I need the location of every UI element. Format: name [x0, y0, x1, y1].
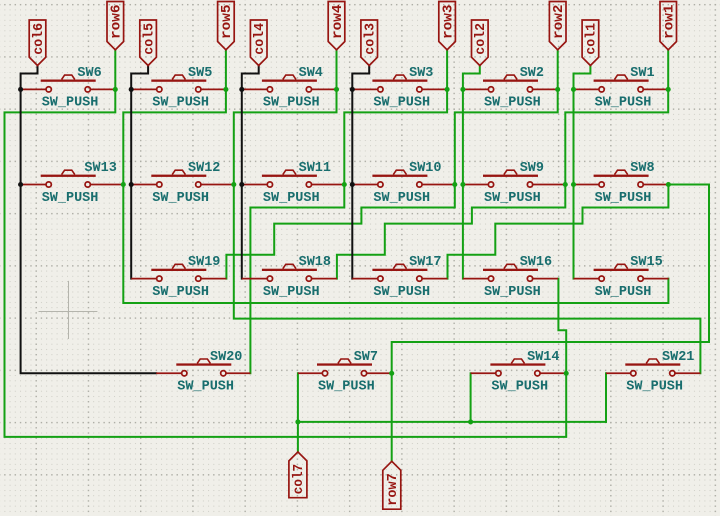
svg-text:SW_PUSH: SW_PUSH: [373, 96, 430, 111]
switch SW6: [21, 75, 116, 92]
svg-text:SW8: SW8: [630, 161, 654, 176]
wire net row1: staircase from SW9 right pin down-left to SW18 right pin: [337, 185, 565, 279]
switch SW11: [242, 170, 344, 187]
junction at SW12 right pin: [231, 182, 236, 187]
wire net row7: SW7 right pin drop to row7 flag: [391, 373, 393, 461]
junction col2 at row-2 switch left pin: [460, 182, 465, 187]
wire net row3: flag drop through SW3 right pin, jog left, down to row-2 switch: [344, 50, 447, 185]
svg-text:col4: col4: [253, 23, 268, 55]
svg-text:SW17: SW17: [409, 255, 441, 270]
net flag col2: [472, 20, 490, 66]
switch SW21: [606, 359, 700, 376]
svg-text:row4: row4: [331, 5, 346, 40]
junction row6 at SW14 right pin: [564, 371, 569, 376]
switch SW12: [131, 170, 234, 187]
wire net row5: from SW13 right pin down, long run right, up to SW15 right pin: [123, 185, 668, 304]
svg-text:row6: row6: [110, 5, 125, 40]
junction col7 at SW7 left pin drop: [295, 419, 300, 424]
switch SW13: [21, 170, 124, 187]
switch SW1: [574, 75, 669, 92]
svg-text:SW4: SW4: [299, 66, 323, 81]
switch SW19: [131, 264, 226, 281]
net flag row5: [218, 2, 236, 50]
svg-text:row2: row2: [552, 5, 567, 40]
svg-text:SW12: SW12: [188, 161, 220, 176]
junction col5 at row-2 switch left pin: [129, 182, 134, 187]
wire net col7: riser to SW14 left pin: [470, 373, 472, 422]
svg-text:SW_PUSH: SW_PUSH: [484, 96, 541, 111]
svg-text:col1: col1: [585, 23, 600, 55]
net flag row4: [328, 2, 346, 50]
wire net col7: SW7 left pin drop to col7 flag: [297, 373, 299, 452]
svg-text:col5: col5: [142, 23, 157, 55]
switch SW17: [352, 264, 447, 281]
svg-text:SW_PUSH: SW_PUSH: [491, 380, 548, 395]
net flag row2: [549, 2, 567, 50]
wire net row5: flag drop through SW5 right pin, jog left, down to row-2 switch: [123, 50, 226, 185]
switch SW20: [156, 359, 250, 376]
net flag row6: [107, 2, 125, 50]
svg-text:col3: col3: [364, 23, 379, 55]
wire net row7: SW8 right pin to right edge, down and left to SW7 right pin: [392, 185, 709, 374]
svg-text:SW_PUSH: SW_PUSH: [373, 191, 430, 206]
svg-text:SW_PUSH: SW_PUSH: [318, 380, 375, 395]
junction col4 at row-1 switch left pin: [239, 87, 244, 92]
svg-text:SW_PUSH: SW_PUSH: [484, 191, 541, 206]
svg-text:SW7: SW7: [354, 350, 378, 365]
switch SW7: [298, 359, 392, 376]
junction at SW10 right pin: [452, 182, 457, 187]
svg-text:row1: row1: [663, 5, 678, 40]
switch SW8: [574, 170, 669, 187]
wire net row4: flag drop through SW4 right pin, jog left, down to row-2 switch: [234, 50, 337, 185]
svg-text:row3: row3: [441, 5, 456, 40]
switch SW3: [352, 75, 447, 92]
svg-text:SW_PUSH: SW_PUSH: [42, 191, 99, 206]
svg-text:SW_PUSH: SW_PUSH: [152, 191, 209, 206]
net flag col7: [289, 452, 307, 498]
junction at SW13 right pin: [121, 182, 126, 187]
junction at SW9 right pin: [563, 182, 568, 187]
wire net row1: flag drop through SW1 right pin, jog left, down to row-2 switch: [565, 50, 668, 185]
junction col5 at row-1 switch left pin: [129, 87, 134, 92]
net flag row3: [439, 2, 457, 50]
net flag col1: [582, 20, 600, 66]
switch SW9: [463, 170, 565, 187]
svg-text:SW15: SW15: [630, 255, 662, 270]
svg-text:SW_PUSH: SW_PUSH: [263, 191, 320, 206]
switch SW16: [463, 264, 558, 281]
switch SW18: [242, 264, 337, 281]
wire net row2: flag drop through SW2 right pin, jog left, down to row-2 switch: [455, 50, 558, 185]
wire net col7: horizontal run: [298, 421, 606, 423]
svg-text:SW5: SW5: [188, 66, 212, 81]
junction row7 at SW7 right pin: [389, 371, 394, 376]
svg-text:col7: col7: [292, 464, 307, 494]
junction at SW11 right pin: [342, 182, 347, 187]
net flag col6: [29, 20, 47, 66]
svg-text:SW13: SW13: [84, 161, 116, 176]
svg-text:col6: col6: [32, 23, 47, 55]
svg-text:SW1: SW1: [630, 66, 654, 81]
switch SW10: [352, 170, 455, 187]
switch SW4: [242, 75, 337, 92]
svg-text:SW_PUSH: SW_PUSH: [595, 191, 652, 206]
junction col1 at row-2 switch left pin: [571, 182, 576, 187]
wire net col5: flag elbow and vertical down to row-3 switch left pin: [131, 66, 148, 279]
svg-text:SW9: SW9: [520, 161, 544, 176]
svg-text:SW_PUSH: SW_PUSH: [626, 380, 683, 395]
svg-text:SW_PUSH: SW_PUSH: [177, 380, 234, 395]
junction row7 at SW8 right pin: [666, 182, 671, 187]
svg-text:row7: row7: [386, 473, 401, 505]
svg-text:SW_PUSH: SW_PUSH: [152, 96, 209, 111]
origin cross marker: [39, 281, 98, 339]
junction row4 at SW4 right pin: [334, 87, 339, 92]
net flag col4: [250, 20, 268, 66]
svg-text:col2: col2: [474, 23, 489, 55]
svg-text:SW16: SW16: [520, 255, 552, 270]
svg-text:SW10: SW10: [409, 161, 441, 176]
wire net col6: flag elbow, vertical trunk, run right to SW20 left pin: [21, 66, 157, 374]
switch SW5: [131, 75, 226, 92]
net flag row7: [383, 461, 401, 509]
svg-text:SW11: SW11: [299, 161, 331, 176]
junction row3 at SW3 right pin: [445, 87, 450, 92]
svg-text:SW20: SW20: [210, 350, 242, 365]
svg-text:SW21: SW21: [662, 350, 694, 365]
junction col1 at row-1 switch left pin: [571, 87, 576, 92]
junction row2 at SW2 right pin: [555, 87, 560, 92]
switch SW2: [463, 75, 558, 92]
junction col7 at SW14 riser: [468, 419, 473, 424]
svg-text:SW_PUSH: SW_PUSH: [42, 96, 99, 111]
net flag row1: [660, 2, 678, 50]
wire net row6: flag drop, left trunk down and bottom run to SW14: [5, 50, 567, 437]
junction row6 at SW6 right pin: [113, 87, 118, 92]
svg-text:SW_PUSH: SW_PUSH: [595, 285, 652, 300]
wire net col1: flag elbow and vertical down to SW15 left pin: [574, 66, 591, 279]
junction col6 at row-2 switch left pin: [18, 182, 23, 187]
switch SW15: [574, 264, 669, 281]
junction col4 at row-2 switch left pin: [239, 182, 244, 187]
wire net row4: from SW12 right pin down, run right, down to SW21 right pin: [234, 185, 701, 374]
wire net row3: from SW11 right pin jog left, down to SW20 right pin: [250, 185, 344, 374]
svg-text:SW_PUSH: SW_PUSH: [152, 285, 209, 300]
net flag col3: [361, 20, 379, 66]
svg-text:SW6: SW6: [77, 66, 101, 81]
svg-text:SW3: SW3: [409, 66, 433, 81]
wire net row6: SW14 right pin up-jog to SW16 right pin: [558, 279, 566, 374]
svg-text:SW_PUSH: SW_PUSH: [595, 96, 652, 111]
svg-text:SW19: SW19: [188, 255, 220, 270]
svg-text:SW14: SW14: [527, 350, 559, 365]
junction col3 at row-1 switch left pin: [350, 87, 355, 92]
svg-text:SW_PUSH: SW_PUSH: [263, 96, 320, 111]
wire net row7: staircase from SW8 right pin down-left to SW17 right pin: [448, 185, 669, 279]
wire net col7: riser to SW21 left pin: [605, 373, 607, 422]
junction row1 at SW1 right pin: [666, 87, 671, 92]
svg-text:SW_PUSH: SW_PUSH: [263, 285, 320, 300]
wire net col2: flag elbow and vertical down to SW16 left pin: [463, 66, 480, 279]
junction col2 at row-1 switch left pin: [460, 87, 465, 92]
wire net col4: flag elbow and vertical down to row-3 switch left pin: [242, 66, 259, 279]
wire net row2: staircase from SW10 right pin down-left to SW19 right pin: [226, 185, 454, 279]
net flag col5: [140, 20, 158, 66]
switch SW14: [471, 359, 567, 376]
svg-text:SW_PUSH: SW_PUSH: [373, 285, 430, 300]
junction col3 at row-2 switch left pin: [350, 182, 355, 187]
wire net col3: flag elbow and vertical down to row-3 switch left pin: [352, 66, 369, 279]
svg-text:SW_PUSH: SW_PUSH: [484, 285, 541, 300]
svg-text:row5: row5: [220, 5, 235, 40]
junction col6 at row-1 switch left pin: [18, 87, 23, 92]
svg-text:SW18: SW18: [299, 255, 331, 270]
junction row5 at SW5 right pin: [223, 87, 228, 92]
svg-text:SW2: SW2: [520, 66, 544, 81]
